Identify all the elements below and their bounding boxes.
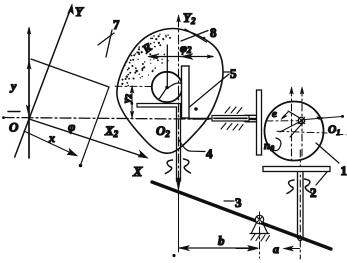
big disc 7 [117, 29, 223, 154]
crank arm lines [280, 120, 304, 133]
pivot [255, 215, 263, 223]
tool 4 [176, 107, 178, 181]
svg-text:R: R [139, 40, 155, 57]
axis Y2 [178, 18, 180, 196]
svg-text:x: x [48, 131, 55, 145]
tool 4 hatch [166, 160, 173, 174]
svg-text:7: 7 [113, 17, 120, 32]
svg-text:y: y [9, 79, 17, 93]
axis X [29, 119, 145, 157]
guide hatch above [225, 107, 242, 114]
guide rails [189, 118, 257, 120]
svg-text:Y: Y [75, 4, 84, 19]
pin dot on leader [194, 107, 198, 111]
crank pin slash [160, 88, 168, 99]
label 4 leader [179, 139, 206, 152]
tool 2 [297, 172, 299, 239]
svg-text:4: 4 [206, 146, 213, 161]
leader 1 [316, 143, 339, 163]
axis x horizontal dash-dot [3, 118, 258, 120]
cross slider vertical [257, 90, 262, 155]
axis O1 [277, 131, 327, 133]
tool 2 hatch [287, 180, 294, 194]
leader 7 [106, 30, 112, 57]
svg-text:O2: O2 [156, 123, 170, 139]
cross slider horizontal [245, 115, 257, 122]
ram axis inside crank [266, 120, 298, 122]
R / phi2 arrow [149, 56, 213, 58]
crank circle [152, 72, 182, 102]
svg-text:3: 3 [235, 195, 242, 210]
svg-text:8: 8 [210, 25, 217, 40]
R arrow tick [166, 45, 168, 86]
label 3 [224, 200, 234, 202]
svg-text:Y2: Y2 [183, 10, 196, 26]
dimension x [24, 131, 77, 156]
svg-text:b: b [218, 233, 225, 248]
svg-text:n0: n0 [264, 140, 274, 153]
svg-text:φ2: φ2 [180, 41, 192, 55]
parallelogram top line [31, 59, 109, 87]
tool 4 tip [176, 178, 181, 191]
stipple shading [121, 34, 171, 87]
leader 2 [316, 172, 327, 185]
leader 8 cross [181, 31, 208, 42]
guide hatch below [221, 123, 243, 130]
svg-text:y2: y2 [121, 94, 133, 105]
svg-text:X2: X2 [104, 123, 119, 139]
extension steep line [81, 87, 110, 165]
centerline v2 [301, 89, 303, 158]
dimension y2 [131, 86, 133, 118]
svg-text:O: O [9, 120, 19, 135]
pivot centerline [259, 212, 261, 258]
svg-text:O1: O1 [328, 124, 340, 137]
svg-text:a: a [273, 242, 279, 256]
svg-text:X: X [132, 165, 143, 180]
dimension y [27, 61, 31, 69]
dimension b [178, 196, 180, 252]
bracket [137, 103, 182, 105]
label 5 leader [224, 71, 230, 73]
ram 5 [182, 66, 190, 118]
svg-text:5: 5 [230, 66, 237, 81]
workpiece circle 1 [265, 102, 324, 161]
table 2 [263, 167, 330, 172]
eccentric pin [298, 117, 304, 123]
lever 3 [152, 182, 331, 249]
svg-text:φ: φ [68, 119, 75, 134]
dimension a [236, 248, 256, 250]
svg-text:1: 1 [341, 163, 347, 178]
axis Y rotated [15, 8, 71, 158]
svg-text:e: e [272, 108, 277, 120]
axis y vertical [28, 29, 30, 158]
centerline v1 [291, 89, 293, 160]
